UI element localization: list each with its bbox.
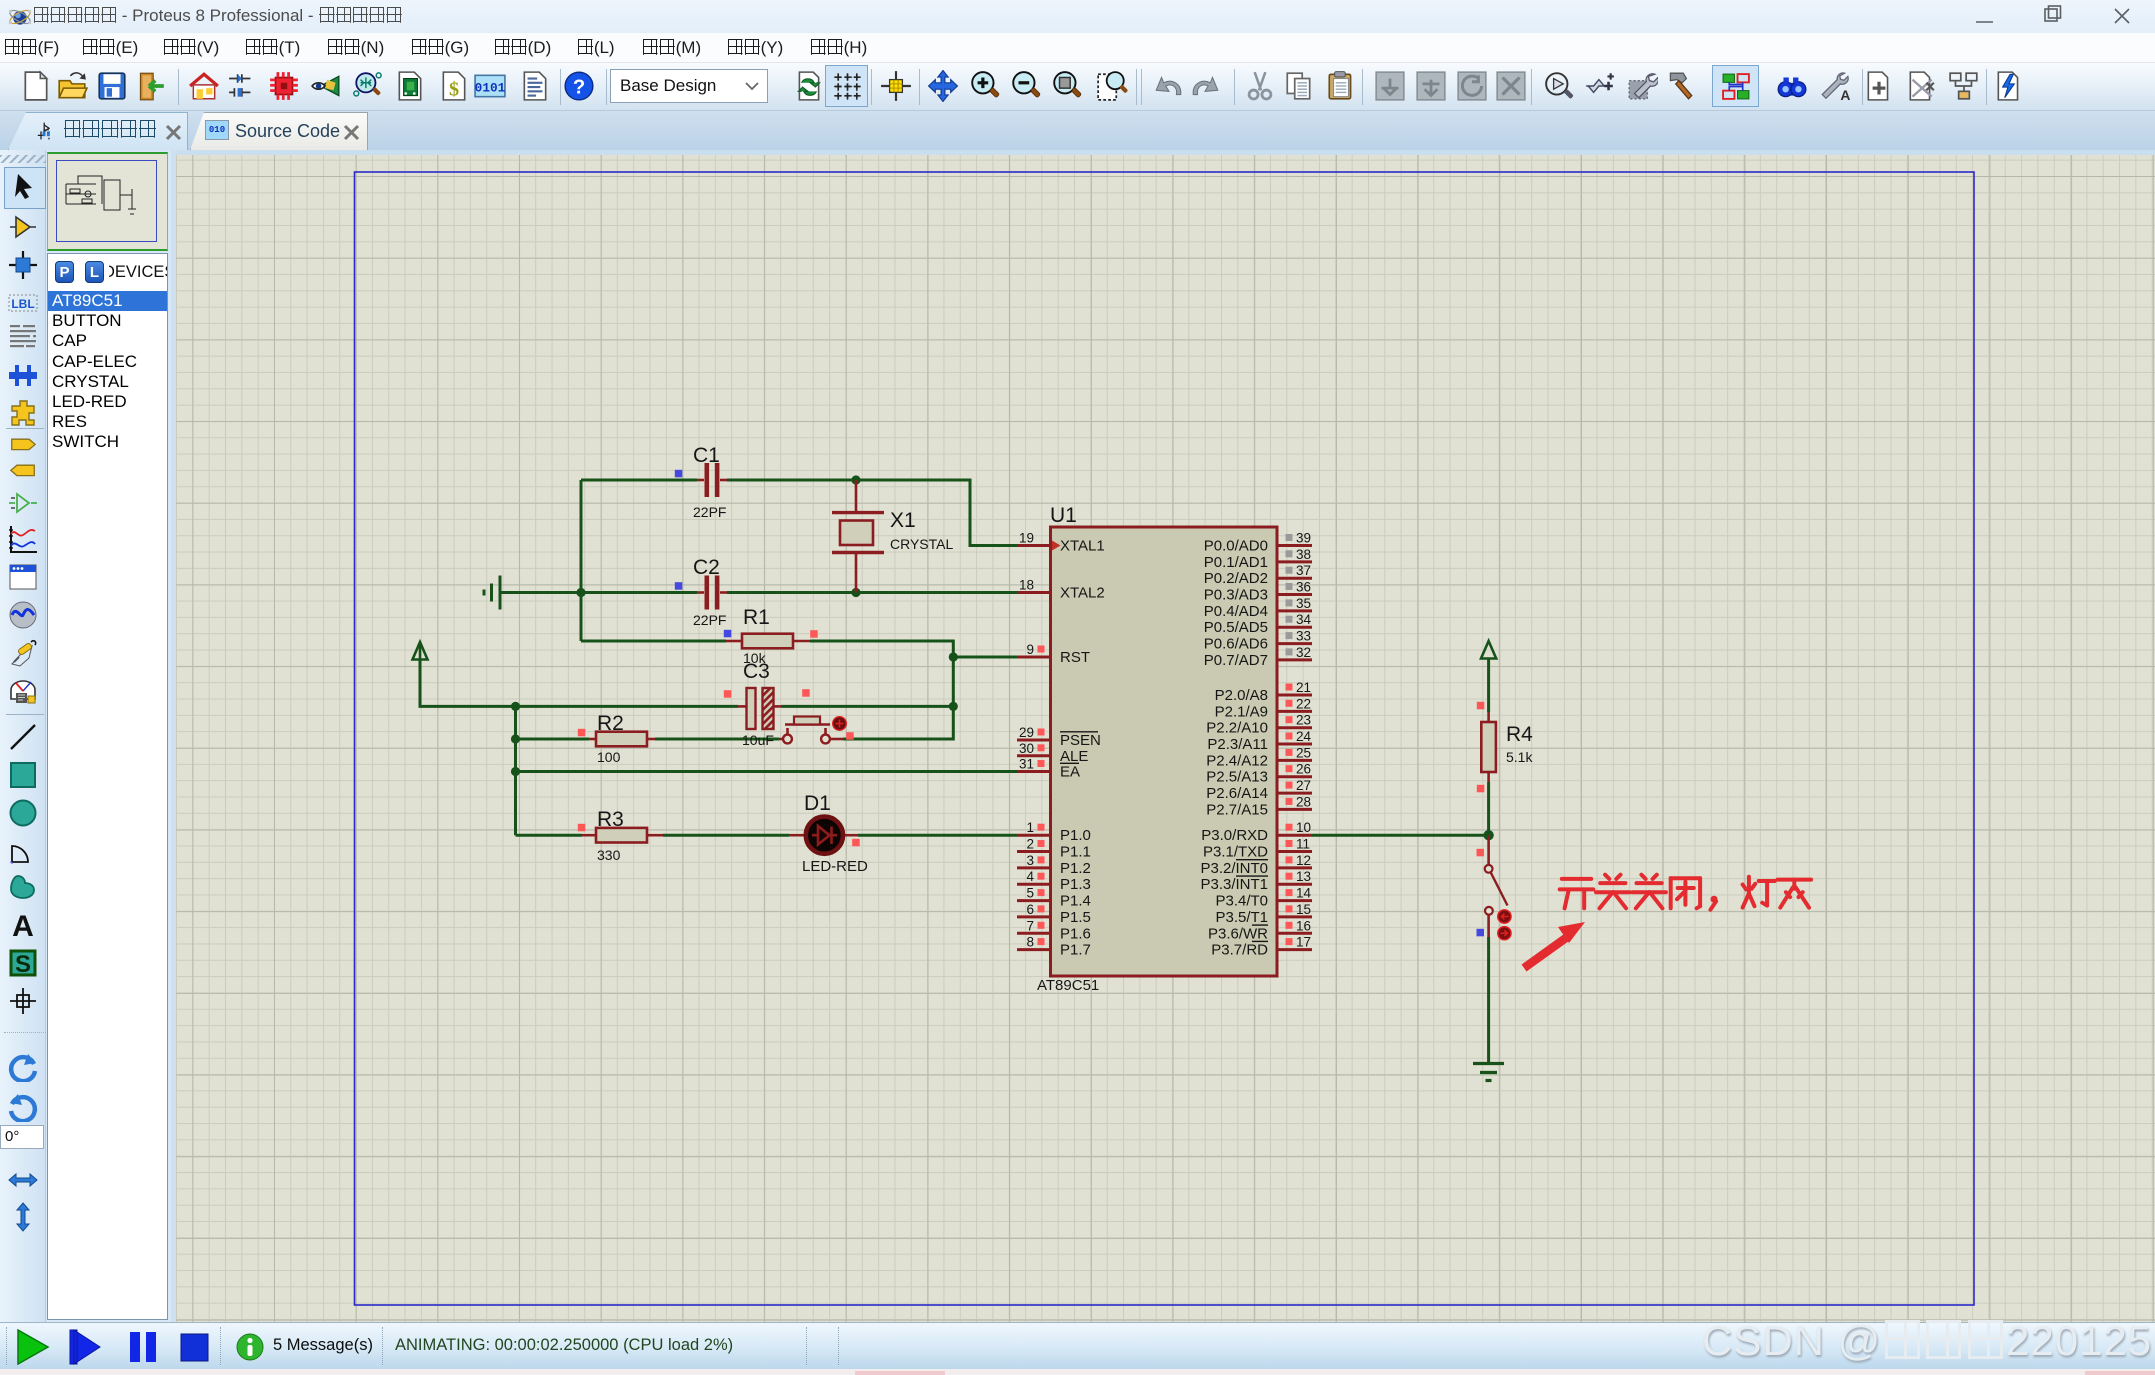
svg-text:5.1k: 5.1k <box>1506 749 1533 765</box>
svg-text:P2.3/A11: P2.3/A11 <box>1207 736 1268 753</box>
wire XTAL1 net: C1 top rail to U1 pin19 <box>581 480 1017 546</box>
svg-text:EA: EA <box>1060 764 1080 781</box>
svg-text:37: 37 <box>1296 563 1311 578</box>
junction RST <box>949 652 958 661</box>
resistor R3 330 <box>582 808 663 863</box>
U1 pin 16 (P3.6/WR) <box>1208 918 1312 942</box>
junction R2 row <box>511 734 520 743</box>
wire EA row <box>516 770 1018 773</box>
junction C2/crystal <box>851 588 860 597</box>
resistor R1 10k <box>726 606 810 666</box>
svg-text:P2.7/A15: P2.7/A15 <box>1206 801 1268 818</box>
svg-text:22PF: 22PF <box>693 612 726 628</box>
wire VCC to R4 <box>1487 658 1490 712</box>
R4 state squares <box>1477 702 1485 710</box>
svg-text:P3.2/INT0: P3.2/INT0 <box>1200 860 1268 877</box>
svg-text:P2.2/A10: P2.2/A10 <box>1206 720 1268 737</box>
svg-text:6: 6 <box>1026 902 1034 917</box>
svg-text:R3: R3 <box>597 808 624 831</box>
annotation text: switch closed, lamp off <box>1560 875 1811 910</box>
LED D1 LED-RED <box>789 792 868 875</box>
svg-text:35: 35 <box>1296 596 1311 611</box>
U1 pin 8 (P1.7) <box>1017 935 1091 959</box>
svg-text:19: 19 <box>1019 531 1034 546</box>
U1 pin 15 (P3.5/T1) <box>1215 902 1312 926</box>
U1 pin 38 (P0.1/AD1) <box>1204 547 1312 571</box>
U1 pin 19 (XTAL1) <box>1017 531 1105 555</box>
svg-text:C1: C1 <box>693 444 720 467</box>
resistor R4 5.1k <box>1481 712 1533 782</box>
U1 pin 23 (P2.2/A10) <box>1206 713 1312 737</box>
svg-text:LED-RED: LED-RED <box>802 858 868 875</box>
svg-text:22PF: 22PF <box>693 504 726 520</box>
svg-text:P1.6: P1.6 <box>1060 925 1091 942</box>
svg-text:21: 21 <box>1296 680 1311 695</box>
svg-text:38: 38 <box>1296 547 1311 562</box>
U1 pin 29 (PSEN) <box>1017 725 1101 749</box>
svg-text:P1.7: P1.7 <box>1060 942 1091 959</box>
U1 pin 3 (P1.2) <box>1017 853 1091 877</box>
U1 pin 17 (P3.7/RD) <box>1211 935 1312 959</box>
svg-text:17: 17 <box>1296 935 1311 950</box>
svg-text:31: 31 <box>1019 757 1034 772</box>
svg-text:P1.5: P1.5 <box>1060 909 1091 926</box>
U1 pin 13 (P3.3/INT1) <box>1200 869 1312 893</box>
svg-text:4: 4 <box>1026 869 1034 884</box>
U1 pin 12 (P3.2/INT0) <box>1200 853 1312 877</box>
svg-text:330: 330 <box>597 847 621 863</box>
U1 pin 27 (P2.6/A14) <box>1206 778 1312 802</box>
capacitor C1 22PF <box>693 444 727 520</box>
svg-text:LBL: LBL <box>11 297 34 311</box>
switch state squares <box>1477 849 1485 857</box>
svg-text:P3.7/RD: P3.7/RD <box>1211 942 1268 959</box>
svg-text:9: 9 <box>1026 642 1034 657</box>
junction C1/crystal <box>851 475 860 484</box>
svg-text:P2.0/A8: P2.0/A8 <box>1215 687 1268 704</box>
svg-text:25: 25 <box>1296 745 1311 760</box>
U1 pin 34 (P0.5/AD5) <box>1204 612 1312 636</box>
U1 pin 25 (P2.4/A12) <box>1206 745 1312 769</box>
svg-text:AT89C51: AT89C51 <box>1037 977 1099 994</box>
svg-text:P3.0/RXD: P3.0/RXD <box>1201 827 1268 844</box>
wire switch to ground <box>1487 937 1490 1063</box>
svg-text:P1.3: P1.3 <box>1060 876 1091 893</box>
svg-text:X1: X1 <box>890 509 916 532</box>
svg-text:P2.4/A12: P2.4/A12 <box>1206 752 1268 769</box>
power VCC arrow (switch column) <box>1481 641 1496 659</box>
U1 pin 11 (P3.1/TXD) <box>1203 837 1312 861</box>
svg-text:27: 27 <box>1296 778 1311 793</box>
svg-text:12: 12 <box>1296 853 1311 868</box>
U1 pin 30 (ALE) <box>1017 741 1088 765</box>
U1 pin 9 (RST) <box>1017 642 1090 666</box>
svg-text:P3.3/INT1: P3.3/INT1 <box>1200 876 1268 893</box>
U1 pin 22 (P2.1/A9) <box>1215 696 1312 720</box>
svg-text:P1.4: P1.4 <box>1060 893 1091 910</box>
wire RST stub <box>953 656 1017 659</box>
svg-text:P3.5/T1: P3.5/T1 <box>1215 909 1268 926</box>
svg-text:P0.0/AD0: P0.0/AD0 <box>1204 538 1268 555</box>
svg-text:100: 100 <box>597 749 621 765</box>
svg-text:26: 26 <box>1296 762 1311 777</box>
U1 pin 1 (P1.0) <box>1017 820 1091 844</box>
svg-text:C2: C2 <box>693 556 720 579</box>
svg-text:16: 16 <box>1296 918 1311 933</box>
svg-text:13: 13 <box>1296 869 1311 884</box>
annotation arrow <box>1524 922 1585 968</box>
svg-text:P0.1/AD1: P0.1/AD1 <box>1204 554 1268 571</box>
svg-text:XTAL1: XTAL1 <box>1060 538 1105 555</box>
wire R4 to P3.0 junction <box>1487 782 1490 835</box>
svg-text:D1: D1 <box>804 792 831 815</box>
junction P3.0/R4/switch node <box>1483 830 1493 840</box>
svg-text:10: 10 <box>1296 820 1311 835</box>
svg-text:P3.6/WR: P3.6/WR <box>1208 925 1268 942</box>
U1 pin 6 (P1.5) <box>1017 902 1091 926</box>
switch SW (open) <box>1485 835 1511 940</box>
svg-text:$: $ <box>449 79 459 101</box>
pushbutton (reset) <box>779 717 846 744</box>
svg-text:P3.1/TXD: P3.1/TXD <box>1203 844 1268 861</box>
svg-text:10uF: 10uF <box>742 732 774 748</box>
svg-text:PSEN: PSEN <box>1060 732 1101 749</box>
wire left vertical rail C1-C2-R1 <box>580 480 583 641</box>
wire VCC to C3 row <box>420 659 953 706</box>
svg-text:23: 23 <box>1296 713 1311 728</box>
capacitor C2 22PF <box>693 556 727 628</box>
C2 wire-state square (blue) <box>675 582 683 590</box>
svg-text:RST: RST <box>1060 649 1090 666</box>
svg-text:15: 15 <box>1296 902 1311 917</box>
svg-text:P2.6/A14: P2.6/A14 <box>1206 785 1268 802</box>
svg-text:22: 22 <box>1296 696 1311 711</box>
svg-text:8: 8 <box>1026 935 1034 950</box>
svg-text:1: 1 <box>1026 820 1034 835</box>
svg-text:5: 5 <box>1026 886 1034 901</box>
U1 pin 37 (P0.2/AD2) <box>1204 563 1312 587</box>
svg-text:A: A <box>12 910 34 940</box>
U1 pin 36 (P0.3/AD3) <box>1204 580 1312 604</box>
svg-text:7: 7 <box>1026 918 1034 933</box>
svg-text:32: 32 <box>1296 645 1311 660</box>
svg-text:P1.2: P1.2 <box>1060 860 1091 877</box>
power VCC arrow (reset rail) <box>413 642 428 660</box>
U1 pin 5 (P1.4) <box>1017 886 1091 910</box>
R3 state square <box>578 824 586 832</box>
svg-text:?: ? <box>573 76 585 98</box>
U1 pin 2 (P1.1) <box>1017 837 1091 861</box>
pushbutton state square <box>846 732 854 740</box>
svg-text:P1.0: P1.0 <box>1060 827 1091 844</box>
svg-text:P0.6/AD6: P0.6/AD6 <box>1204 636 1268 653</box>
wire R1 row to RST vertical <box>581 641 953 739</box>
svg-text:0101: 0101 <box>475 80 506 95</box>
R2 state square <box>578 729 586 737</box>
svg-text:30: 30 <box>1019 741 1034 756</box>
U1 pin 26 (P2.5/A13) <box>1206 762 1312 786</box>
U1 pin 35 (P0.4/AD4) <box>1204 596 1312 620</box>
svg-text:ALE: ALE <box>1060 748 1088 765</box>
C1 wire-state square (blue) <box>675 470 683 478</box>
resistor R2 100 <box>589 712 655 765</box>
IC U1 AT89C51 microcontroller <box>1037 504 1277 994</box>
svg-text:39: 39 <box>1296 531 1311 546</box>
svg-text:XTAL2: XTAL2 <box>1060 585 1105 602</box>
svg-text:P0.7/AD7: P0.7/AD7 <box>1204 652 1268 669</box>
capacitor C3 10uF (polarized) <box>738 660 781 748</box>
junction C3/RST rail <box>949 702 958 711</box>
svg-text:24: 24 <box>1296 729 1312 744</box>
wire U1 pin10 P3.0 to switch column <box>1312 834 1489 837</box>
R1 state squares <box>724 630 732 638</box>
svg-text:P2.5/A13: P2.5/A13 <box>1206 769 1268 786</box>
svg-text:34: 34 <box>1296 612 1312 627</box>
svg-text:3: 3 <box>1026 853 1034 868</box>
wire XTAL2 net: ground to C2 to U1 pin18 <box>500 591 1017 594</box>
svg-text:R2: R2 <box>597 712 624 735</box>
U1 pin 14 (P3.4/T0) <box>1215 886 1312 910</box>
svg-text:2: 2 <box>1026 837 1034 852</box>
ground (XTAL2 rail, rotated) <box>484 576 500 610</box>
svg-text:P3.4/T0: P3.4/T0 <box>1215 893 1268 910</box>
wire R2 row <box>516 738 780 741</box>
svg-text:U1: U1 <box>1050 504 1077 527</box>
wire left distribution vertical <box>514 706 517 835</box>
C3 state squares <box>724 690 732 698</box>
svg-text:P0.2/AD2: P0.2/AD2 <box>1204 570 1268 587</box>
svg-text:29: 29 <box>1019 725 1034 740</box>
svg-text:14: 14 <box>1296 886 1312 901</box>
wire R3/LED row to U1 pin1 <box>516 834 1018 837</box>
D1 state square <box>852 839 860 847</box>
U1 pin 21 (P2.0/A8) <box>1215 680 1312 704</box>
svg-text:S: S <box>15 951 31 978</box>
svg-text:28: 28 <box>1296 794 1311 809</box>
U1 pin 4 (P1.3) <box>1017 869 1091 893</box>
U1 pin 39 (P0.0/AD0) <box>1204 531 1312 555</box>
U1 pin 10 (P3.0/RXD) <box>1201 820 1312 844</box>
U1 pin 24 (P2.3/A11) <box>1207 729 1312 753</box>
svg-text:R1: R1 <box>743 606 770 629</box>
svg-text:P1.1: P1.1 <box>1060 844 1091 861</box>
svg-text:33: 33 <box>1296 629 1311 644</box>
svg-text:R4: R4 <box>1506 723 1533 746</box>
svg-text:18: 18 <box>1019 578 1034 593</box>
U1 pin 28 (P2.7/A15) <box>1206 794 1312 818</box>
svg-text:A: A <box>1840 87 1850 102</box>
svg-text:CRYSTAL: CRYSTAL <box>890 536 953 552</box>
U1 pin 33 (P0.6/AD6) <box>1204 629 1312 653</box>
svg-text:36: 36 <box>1296 580 1311 595</box>
schematic sheet border <box>355 172 1975 1305</box>
U1 pin 18 (XTAL2) <box>1017 578 1105 602</box>
svg-text:P0.4/AD4: P0.4/AD4 <box>1204 603 1268 620</box>
crystal X1 <box>832 480 953 593</box>
svg-text:P0.5/AD5: P0.5/AD5 <box>1204 619 1268 636</box>
junction C3/left rail <box>511 702 520 711</box>
svg-text:11: 11 <box>1296 837 1310 852</box>
U1 pin 32 (P0.7/AD7) <box>1204 645 1312 669</box>
junction EA row <box>511 767 520 776</box>
svg-text:P0.3/AD3: P0.3/AD3 <box>1204 587 1268 604</box>
junction left rail / C2 <box>576 588 585 597</box>
ground (switch column) <box>1473 1064 1504 1081</box>
svg-text:P2.1/A9: P2.1/A9 <box>1215 703 1268 720</box>
svg-text:C3: C3 <box>743 660 770 683</box>
U1 pin 7 (P1.6) <box>1017 918 1091 942</box>
U1 pin 31 (EA) <box>1017 757 1080 781</box>
